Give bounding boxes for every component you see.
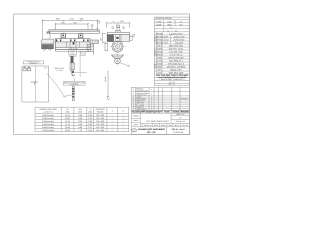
balloon marker near rail bbox=[91, 24, 93, 26]
dimension ticks bbox=[42, 20, 99, 25]
motor cooling fins bbox=[42, 45, 54, 49]
svg-text:DATA: DATA bbox=[154, 63, 157, 68]
svg-text:—: — bbox=[122, 124, 124, 126]
terminal box on top left bbox=[47, 32, 50, 34]
svg-text:4.5/0.37 kW: 4.5/0.37 kW bbox=[174, 35, 185, 38]
left rope guide rect bbox=[105, 43, 108, 51]
svg-text:3.12: 3.12 bbox=[88, 117, 92, 120]
svg-text:2024.5.16: 2024.5.16 bbox=[144, 124, 152, 127]
svg-text:A3: A3 bbox=[179, 116, 181, 119]
limit switch ladder bbox=[87, 44, 93, 55]
hoist body main box bbox=[55, 39, 90, 50]
lift height dimension line bbox=[79, 50, 81, 77]
extension line right bbox=[97, 20, 99, 31]
svg-text:RANGE: RANGE bbox=[97, 111, 104, 114]
lift height dimension (right view) bbox=[107, 71, 108, 97]
rotated group labels in spec table bbox=[154, 35, 157, 68]
svg-text:REV 0: REV 0 bbox=[174, 124, 179, 127]
svg-text:PAINT: PAINT bbox=[157, 66, 164, 69]
svg-text:—: — bbox=[122, 130, 124, 132]
svg-text:6.83: 6.83 bbox=[78, 126, 82, 129]
hook block twin plates bbox=[70, 63, 72, 70]
svg-text:11.15: 11.15 bbox=[65, 120, 70, 123]
hoist body middle band shading bbox=[55, 42, 90, 48]
svg-text:APP'D: APP'D bbox=[133, 123, 139, 126]
svg-text:SPEED: SPEED bbox=[156, 39, 163, 42]
svg-text:2.00x(7m-5m): 2.00x(7m-5m) bbox=[42, 117, 54, 120]
svg-text:11.75: 11.75 bbox=[65, 123, 70, 126]
svg-text:L = 20 m: L = 20 m bbox=[56, 69, 63, 72]
svg-text:CD1 WIRE ROPE HOIST: CD1 WIRE ROPE HOIST bbox=[146, 120, 169, 123]
left vertical dimension bbox=[102, 33, 107, 43]
pendant controller bbox=[72, 86, 74, 101]
trolley wheel right bbox=[78, 33, 83, 39]
hook shank bbox=[72, 71, 75, 73]
hook tip bbox=[72, 73, 75, 76]
svg-text:6x37+FC-11mm: 6x37+FC-11mm bbox=[169, 48, 184, 51]
svg-text:H=6m: H=6m bbox=[104, 76, 107, 82]
svg-text:140 - 240: 140 - 240 bbox=[96, 123, 104, 126]
leader from hook to remote label bbox=[73, 78, 75, 81]
svg-text:6.08: 6.08 bbox=[78, 117, 82, 120]
lift label box bbox=[81, 52, 86, 55]
svg-text:3.37: 3.37 bbox=[88, 126, 92, 129]
svg-text:DIN 15401 No.2.5: DIN 15401 No.2.5 bbox=[168, 63, 185, 66]
svg-text:9: 9 bbox=[133, 88, 134, 91]
svg-text:STD: STD bbox=[157, 72, 162, 75]
svg-text:3.46: 3.46 bbox=[88, 129, 92, 132]
svg-text:HOIST: HOIST bbox=[154, 35, 157, 41]
svg-text:75: 75 bbox=[96, 27, 98, 30]
svg-text:QTY : 1: QTY : 1 bbox=[169, 83, 177, 86]
svg-text:380V 3PH 50Hz: 380V 3PH 50Hz bbox=[169, 45, 183, 48]
svg-text:A.BM: A.BM bbox=[161, 124, 166, 127]
svg-text:D 270 / 90 x 4: D 270 / 90 x 4 bbox=[170, 54, 183, 57]
svg-text:3.15x(7m-5m): 3.15x(7m-5m) bbox=[42, 129, 54, 132]
svg-text:3.05: 3.05 bbox=[88, 114, 92, 117]
svg-text:MUNSELL 2.5PB5/8: MUNSELL 2.5PB5/8 bbox=[167, 66, 186, 69]
svg-text:M5 ( FEM 2m ): M5 ( FEM 2m ) bbox=[169, 60, 183, 63]
svg-text:CHK'D: CHK'D bbox=[133, 119, 139, 122]
suspension bolts bbox=[112, 27, 114, 29]
svg-text:3.28: 3.28 bbox=[88, 123, 92, 126]
trolley wheel left bbox=[61, 33, 66, 39]
svg-text:OPTION: OPTION bbox=[181, 98, 188, 101]
svg-text:3.20: 3.20 bbox=[88, 120, 92, 123]
svg-text:—: — bbox=[111, 130, 113, 132]
svg-text:20 m/: 20 m/ bbox=[163, 39, 168, 42]
svg-text:ROPE: ROPE bbox=[157, 48, 163, 51]
svg-text:7.15: 7.15 bbox=[78, 129, 82, 132]
svg-text:—: — bbox=[111, 115, 113, 117]
svg-text:1012: 1012 bbox=[69, 17, 75, 20]
svg-text:No.125: No.125 bbox=[182, 124, 188, 127]
svg-text:5.90: 5.90 bbox=[78, 114, 82, 117]
svg-text:(OPTION): (OPTION) bbox=[70, 83, 78, 86]
middle block bbox=[114, 35, 121, 42]
svg-text:—: — bbox=[111, 121, 113, 123]
hook suspension T bar bbox=[69, 55, 77, 57]
rope guide cross bbox=[73, 42, 75, 45]
svg-text:SUIT FOR GB/T 10051.1-2010 AND: SUIT FOR GB/T 10051.1-2010 AND bbox=[156, 74, 189, 77]
leader line from hook bbox=[75, 71, 88, 73]
center dark square on body bbox=[116, 37, 118, 39]
svg-text:C.DW: C.DW bbox=[167, 124, 172, 127]
svg-text:255: 255 bbox=[100, 38, 103, 41]
company logo oval bbox=[132, 129, 137, 132]
suspension bolt row bbox=[56, 39, 89, 41]
small attachment right bbox=[130, 36, 133, 41]
svg-text:—: — bbox=[111, 118, 113, 120]
dimension line overall width bbox=[43, 20, 98, 22]
hook circle bbox=[115, 58, 121, 64]
gear box right end bbox=[90, 40, 98, 44]
extension line mid-right bbox=[87, 23, 89, 30]
hook housing trapezoid bbox=[112, 55, 124, 58]
svg-text:WHEEL: WHEEL bbox=[156, 54, 164, 57]
right block bbox=[121, 35, 130, 42]
svg-text:DUTY: DUTY bbox=[157, 60, 163, 63]
pendant detail box bbox=[22, 66, 49, 102]
svg-text:SPEED: SPEED bbox=[156, 32, 163, 35]
drum end circle bbox=[112, 41, 123, 52]
svg-text:TYPE: TYPE bbox=[156, 20, 162, 23]
svg-text:H6: H6 bbox=[82, 52, 84, 55]
svg-text:DRAWN: DRAWN bbox=[133, 114, 140, 117]
svg-text:2x0.4 kW: 2x0.4 kW bbox=[175, 42, 183, 45]
svg-text:(kN): (kN) bbox=[88, 111, 92, 114]
bottom plate band under body bbox=[55, 50, 88, 52]
svg-text:—: — bbox=[122, 127, 124, 129]
svg-text:20/30 m/min: 20/30 m/min bbox=[173, 39, 184, 42]
svg-text:100 - 200: 100 - 200 bbox=[96, 114, 104, 117]
suspension top bbox=[117, 25, 120, 28]
balloon right bbox=[133, 34, 135, 36]
svg-text:TROLLEY: TROLLEY bbox=[154, 47, 157, 56]
svg-text:140 - 240: 140 - 240 bbox=[96, 129, 104, 132]
svg-text:8 (0.8/8) m/min: 8 (0.8/8) m/min bbox=[169, 32, 182, 35]
svg-text:—: — bbox=[122, 115, 124, 117]
svg-text:SPECIFICATIONS: SPECIFICATIONS bbox=[155, 17, 172, 20]
verticals upper bbox=[163, 20, 165, 32]
pendant detail label box bbox=[23, 61, 43, 64]
svg-text:—: — bbox=[122, 121, 124, 123]
svg-text:CO., LTD.: CO., LTD. bbox=[147, 131, 156, 134]
svg-text:6m: 6m bbox=[180, 23, 183, 26]
bolt circles on cover bbox=[114, 43, 115, 44]
center lines bbox=[110, 46, 127, 48]
dimension line second bbox=[56, 23, 89, 25]
motor end dark block bbox=[107, 35, 114, 42]
svg-text:350: 350 bbox=[44, 67, 47, 70]
svg-text:D.W 325 x 800: D.W 325 x 800 bbox=[169, 51, 183, 54]
motor housing bbox=[41, 39, 54, 44]
svg-text:SHEET 1/1: SHEET 1/1 bbox=[176, 113, 184, 116]
svg-text:—: — bbox=[111, 124, 113, 126]
verticals mid bbox=[156, 32, 158, 74]
svg-text:6.31: 6.31 bbox=[78, 120, 82, 123]
svg-text:540 kg / SET: 540 kg / SET bbox=[170, 69, 182, 72]
svg-text:12.40: 12.40 bbox=[65, 126, 70, 129]
monorail beam bbox=[49, 30, 100, 34]
svg-text:2.80x(7m-5m): 2.80x(7m-5m) bbox=[42, 126, 54, 129]
svg-text:TAIXING HOIST MACHINERY: TAIXING HOIST MACHINERY bbox=[138, 128, 166, 131]
svg-text:100 - 200: 100 - 200 bbox=[96, 117, 104, 120]
push button symbol B bbox=[27, 68, 30, 71]
svg-text:ZDY: ZDY bbox=[164, 42, 169, 45]
svg-text:13.20: 13.20 bbox=[65, 129, 70, 132]
svg-text:10.15: 10.15 bbox=[65, 114, 70, 117]
svg-text:(kN): (kN) bbox=[78, 111, 82, 114]
extension line left bbox=[42, 20, 44, 39]
rope dark block bbox=[71, 56, 74, 63]
crossbeam band bbox=[108, 32, 130, 34]
svg-text:CD1 2t - 6m H: CD1 2t - 6m H bbox=[171, 128, 185, 131]
label band under body bbox=[69, 50, 77, 55]
svg-text:10.60: 10.60 bbox=[65, 117, 70, 120]
svg-text:SCALE 1:10: SCALE 1:10 bbox=[176, 120, 185, 123]
svg-text:1.80x(7m-5m): 1.80x(7m-5m) bbox=[42, 114, 54, 117]
svg-text:1: 1 bbox=[151, 88, 152, 91]
svg-text:HOOK: HOOK bbox=[156, 63, 163, 66]
svg-text:( TRACK GB/T 11264-2012 ): ( TRACK GB/T 11264-2012 ) bbox=[159, 78, 185, 81]
svg-text:(kN): (kN) bbox=[66, 111, 70, 114]
remote controller label box bbox=[63, 82, 85, 86]
balloon at dim end bbox=[98, 21, 100, 23]
motor feet bbox=[44, 49, 46, 50]
svg-text:—: — bbox=[111, 127, 113, 129]
extension line mid-left bbox=[55, 23, 57, 30]
svg-text:2.24x(7m-5m): 2.24x(7m-5m) bbox=[42, 120, 54, 123]
svg-text:A x B ( m ): A x B ( m ) bbox=[44, 111, 53, 114]
svg-text:CODE: CODE bbox=[156, 23, 162, 26]
hook swivel bbox=[71, 70, 74, 72]
svg-text:VOLT: VOLT bbox=[157, 45, 163, 48]
hook leader balloon bbox=[120, 63, 128, 66]
drawing sheet border frame bbox=[14, 14, 190, 135]
svg-text:CONTROLLER: CONTROLLER bbox=[136, 89, 148, 92]
svg-text:DRUM: DRUM bbox=[156, 51, 162, 54]
svg-text:MOTOR: MOTOR bbox=[156, 42, 164, 45]
svg-text:140 - 240: 140 - 240 bbox=[96, 126, 104, 129]
svg-text:TX-0215-06: TX-0215-06 bbox=[173, 131, 184, 134]
dimension line width bbox=[107, 22, 130, 24]
svg-text:MOTOR: MOTOR bbox=[156, 35, 164, 38]
pendant cable line bbox=[47, 74, 64, 96]
svg-text:GB706 I25a-I45b: GB706 I25a-I45b bbox=[168, 57, 184, 60]
svg-text:6.55: 6.55 bbox=[78, 123, 82, 126]
svg-text:b: b bbox=[123, 109, 124, 112]
svg-text:GB/T 3811-2008: GB/T 3811-2008 bbox=[169, 72, 184, 75]
svg-text:SWITCH: SWITCH bbox=[30, 62, 37, 65]
svg-text:8: 8 bbox=[133, 92, 134, 95]
svg-text:2.50x(7m-5m): 2.50x(7m-5m) bbox=[42, 123, 54, 126]
cable symbol bbox=[31, 81, 39, 83]
svg-text:—: — bbox=[122, 118, 124, 120]
parts list header row bbox=[132, 111, 190, 114]
svg-text:1: 1 bbox=[151, 92, 152, 95]
svg-text:100 - 200: 100 - 200 bbox=[96, 120, 104, 123]
phantom hook at lowest position bbox=[107, 97, 110, 100]
push button symbol A bbox=[23, 68, 26, 71]
